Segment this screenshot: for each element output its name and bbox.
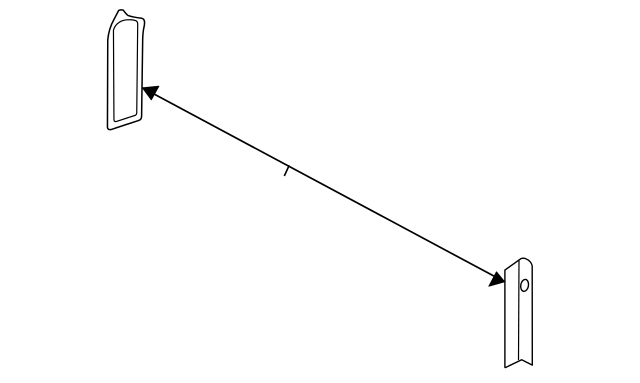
bracket hole bbox=[520, 279, 530, 292]
molding inner outline bbox=[113, 20, 137, 122]
bracket fold line bbox=[518, 260, 521, 360]
tick mark on arrow line bbox=[284, 165, 289, 176]
bracket outline (bottom-right part) bbox=[505, 258, 532, 367]
arrowhead (lower-right, at bracket) bbox=[489, 272, 505, 286]
arrow line bbox=[143, 88, 505, 282]
molding outer outline (top-left part) bbox=[107, 10, 144, 130]
arrowhead (upper-left, at molding) bbox=[143, 86, 159, 100]
